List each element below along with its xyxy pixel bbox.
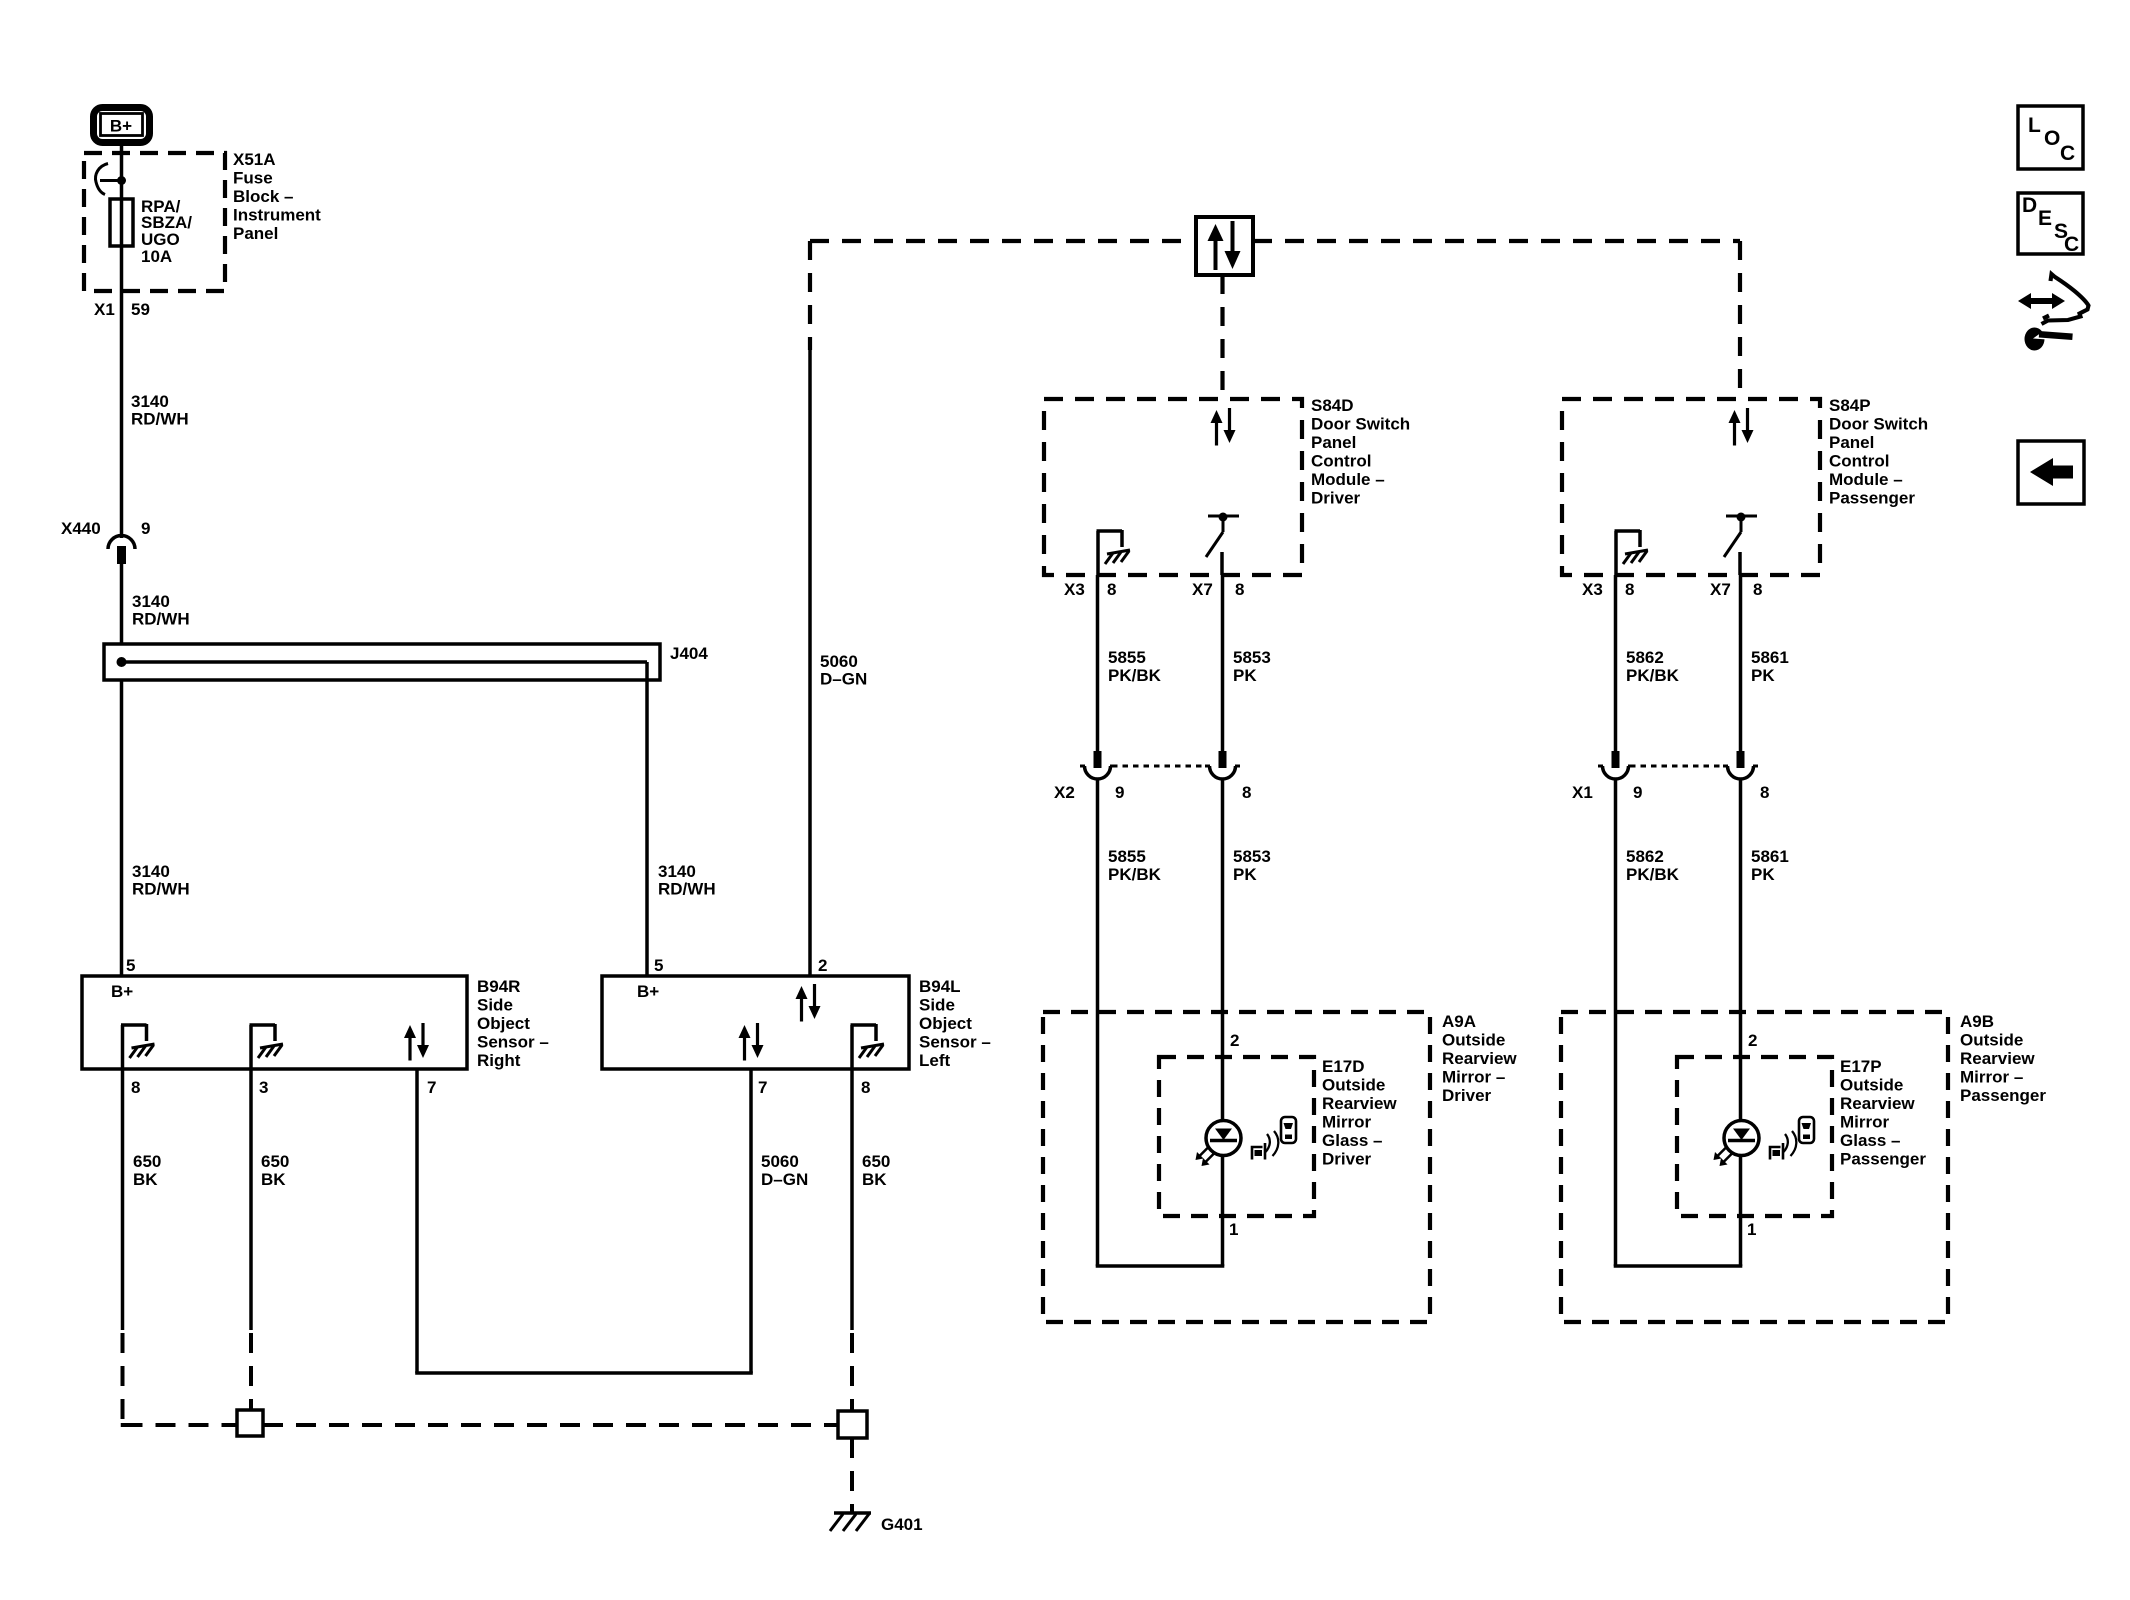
- wire 5862 from S84P X3-8: [1614, 575, 1618, 751]
- svg-text:5855: 5855: [1108, 648, 1146, 667]
- svg-text:1: 1: [1747, 1220, 1756, 1239]
- svg-text:X1: X1: [94, 300, 115, 319]
- S84P serial data arrows: [1729, 410, 1741, 423]
- svg-text:BK: BK: [133, 1170, 158, 1189]
- wrench icon: [2025, 328, 2045, 351]
- svg-text:C: C: [2064, 233, 2079, 256]
- LED emission arrows: [1717, 1147, 1728, 1158]
- svg-text:650: 650: [862, 1152, 890, 1171]
- svg-text:2: 2: [1230, 1031, 1239, 1050]
- wire 5853 from S84D X7-8: [1221, 575, 1225, 751]
- svg-text:5060: 5060: [761, 1152, 799, 1171]
- button back arrow: [2018, 441, 2084, 504]
- svg-text:Door Switch: Door Switch: [1829, 415, 1928, 434]
- svg-text:5855: 5855: [1108, 847, 1146, 866]
- vehicle data exchange icon: [2026, 298, 2057, 304]
- wire 3140 RD/WH J404 to B94L pin 5: [645, 662, 649, 976]
- ground bus dashed to G401: [121, 1423, 125, 1427]
- wire 5060 D-GN loop B94R pin 7 to B94L pin 7: [415, 1069, 419, 1373]
- svg-text:L: L: [2028, 114, 2041, 137]
- mirror glass E17D box: [1159, 1057, 1314, 1216]
- svg-text:D–GN: D–GN: [761, 1170, 808, 1189]
- wire 650 BK from B94R pin 8: [121, 1069, 125, 1330]
- svg-text:650: 650: [261, 1152, 289, 1171]
- svg-text:B94L: B94L: [919, 977, 961, 996]
- mirror module A9A box: [1043, 1012, 1430, 1322]
- svg-text:PK/BK: PK/BK: [1626, 865, 1680, 884]
- wire LED to pin 1: [1739, 1156, 1743, 1266]
- dashed wire direction box to S84D: [1220, 275, 1224, 399]
- svg-text:650: 650: [133, 1152, 161, 1171]
- svg-text:5862: 5862: [1626, 648, 1664, 667]
- svg-text:10A: 10A: [141, 247, 172, 266]
- mirror module A9B box: [1561, 1012, 1948, 1322]
- wire 3140 RD/WH to X440: [120, 291, 124, 538]
- svg-text:Control: Control: [1311, 452, 1371, 471]
- svg-text:PK/BK: PK/BK: [1108, 865, 1162, 884]
- svg-text:8: 8: [1625, 580, 1634, 599]
- svg-text:Object: Object: [919, 1014, 972, 1033]
- svg-text:B+: B+: [111, 982, 133, 1001]
- svg-text:PK/BK: PK/BK: [1626, 666, 1680, 685]
- module S84P Door Switch Panel Control Module box: [1562, 399, 1820, 575]
- svg-text:E17P: E17P: [1840, 1057, 1882, 1076]
- svg-text:E17D: E17D: [1322, 1057, 1365, 1076]
- svg-text:5853: 5853: [1233, 648, 1271, 667]
- svg-text:D: D: [2022, 194, 2037, 217]
- serial data direction box: [1196, 217, 1253, 275]
- inline connector X1 pin 8: [1737, 751, 1745, 768]
- LED indicator in E17P: [1724, 1121, 1759, 1156]
- svg-text:RD/WH: RD/WH: [132, 610, 190, 629]
- wire LED to pin 1: [1221, 1156, 1225, 1266]
- svg-text:Driver: Driver: [1322, 1150, 1372, 1169]
- S84D serial data arrows: [1211, 410, 1223, 423]
- svg-text:Passenger: Passenger: [1960, 1086, 2046, 1105]
- svg-text:PK/BK: PK/BK: [1108, 666, 1162, 685]
- wire B+ to fuse: [120, 146, 124, 200]
- splice pack J404: [104, 644, 660, 680]
- wire fuse to X1 pin 59: [120, 246, 124, 291]
- wire 3140 RD/WH J404 to B94R pin 5: [120, 680, 124, 976]
- svg-text:Module –: Module –: [1829, 470, 1903, 489]
- mirror glass E17P box: [1677, 1057, 1832, 1216]
- svg-text:Passenger: Passenger: [1840, 1150, 1926, 1169]
- svg-text:Driver: Driver: [1442, 1086, 1492, 1105]
- svg-text:J404: J404: [670, 644, 708, 663]
- svg-text:5: 5: [654, 956, 663, 975]
- svg-text:Door Switch: Door Switch: [1311, 415, 1410, 434]
- splice square on ground bus (G401 junction): [838, 1411, 867, 1438]
- svg-text:Mirror –: Mirror –: [1442, 1068, 1505, 1087]
- splice square on ground bus (pin 3 junction): [237, 1410, 263, 1436]
- svg-text:Rearview: Rearview: [1322, 1094, 1397, 1113]
- svg-text:9: 9: [141, 519, 150, 538]
- svg-text:8: 8: [861, 1078, 870, 1097]
- wire 5853 to mirror glass: [1221, 779, 1225, 1121]
- svg-text:Object: Object: [477, 1014, 530, 1033]
- inline connector X2 pin 8: [1219, 751, 1227, 768]
- wire 5855 from S84D X3-8: [1096, 575, 1100, 751]
- LED indicator in E17D: [1206, 1121, 1241, 1156]
- svg-text:7: 7: [758, 1078, 767, 1097]
- LED emission arrows: [1199, 1147, 1210, 1158]
- svg-text:3140: 3140: [131, 392, 169, 411]
- svg-text:PK: PK: [1233, 666, 1257, 685]
- svg-text:5060: 5060: [820, 652, 858, 671]
- wire 5060 D-GN from B94L pin 2 up to data bus: [808, 349, 812, 976]
- B94L internal ground pin 8: [850, 1025, 854, 1069]
- svg-text:3140: 3140: [658, 862, 696, 881]
- svg-text:8: 8: [1235, 580, 1244, 599]
- svg-text:Side: Side: [919, 996, 955, 1015]
- mirror internal return wire: [1096, 1264, 1225, 1268]
- wire 650 BK from B94R pin 3: [249, 1069, 253, 1330]
- svg-text:Rearview: Rearview: [1840, 1094, 1915, 1113]
- svg-text:B+: B+: [637, 982, 659, 1001]
- svg-text:S84P: S84P: [1829, 396, 1871, 415]
- svg-text:5: 5: [126, 956, 135, 975]
- svg-text:C: C: [2060, 142, 2075, 165]
- svg-text:Rearview: Rearview: [1442, 1049, 1517, 1068]
- svg-text:Glass –: Glass –: [1322, 1131, 1383, 1150]
- svg-text:X2: X2: [1054, 783, 1075, 802]
- B94R internal ground pin 8: [121, 1025, 125, 1069]
- svg-text:Module –: Module –: [1311, 470, 1385, 489]
- svg-text:Instrument: Instrument: [233, 206, 321, 225]
- svg-text:X440: X440: [61, 519, 101, 538]
- wire 5855 to mirror: [1096, 779, 1100, 1266]
- svg-text:5861: 5861: [1751, 648, 1789, 667]
- svg-text:A9A: A9A: [1442, 1012, 1476, 1031]
- svg-text:A9B: A9B: [1960, 1012, 1994, 1031]
- S84D internal ground (pin X3 8): [1096, 531, 1100, 575]
- dashed wire square to G401: [850, 1438, 854, 1513]
- B94R serial data arrows pin 7: [404, 1025, 416, 1038]
- svg-text:Sensor –: Sensor –: [919, 1033, 991, 1052]
- svg-text:9: 9: [1115, 783, 1124, 802]
- blind zone alert icon: [1770, 1147, 1781, 1160]
- svg-text:Outside: Outside: [1442, 1031, 1505, 1050]
- svg-text:8: 8: [1242, 783, 1251, 802]
- svg-text:3140: 3140: [132, 592, 170, 611]
- B94R internal ground pin 3: [249, 1025, 253, 1069]
- svg-text:7: 7: [427, 1078, 436, 1097]
- svg-text:X3: X3: [1064, 580, 1085, 599]
- inline connector X1 pin 9: [1612, 751, 1620, 768]
- svg-text:5862: 5862: [1626, 847, 1664, 866]
- svg-text:D–GN: D–GN: [820, 670, 867, 689]
- svg-text:Mirror: Mirror: [1322, 1113, 1372, 1132]
- svg-text:X3: X3: [1582, 580, 1603, 599]
- svg-text:2: 2: [1748, 1031, 1757, 1050]
- svg-text:Fuse: Fuse: [233, 169, 273, 188]
- svg-text:Panel: Panel: [233, 224, 278, 243]
- svg-text:S84D: S84D: [1311, 396, 1354, 415]
- svg-text:Mirror: Mirror: [1840, 1113, 1890, 1132]
- connector X1 face dotted line: [1630, 765, 1726, 768]
- svg-text:8: 8: [1760, 783, 1769, 802]
- svg-text:8: 8: [1753, 580, 1762, 599]
- module B94R Side Object Sensor - Right: [82, 976, 467, 1069]
- svg-text:Driver: Driver: [1311, 489, 1361, 508]
- svg-text:Rearview: Rearview: [1960, 1049, 2035, 1068]
- ground G401: [834, 1511, 871, 1515]
- svg-text:RD/WH: RD/WH: [658, 880, 716, 899]
- button LOC: [2018, 106, 2083, 169]
- svg-text:O: O: [2044, 127, 2060, 150]
- svg-text:E: E: [2038, 207, 2052, 230]
- inline connector X2 pin 9: [1094, 751, 1102, 768]
- connector X2 face dotted line: [1112, 765, 1208, 768]
- power symbol B+: [94, 108, 150, 143]
- svg-text:Side: Side: [477, 996, 513, 1015]
- svg-text:Control: Control: [1829, 452, 1889, 471]
- dashed data bus to door switch modules: [810, 239, 1196, 243]
- svg-text:Right: Right: [477, 1051, 521, 1070]
- svg-text:5853: 5853: [1233, 847, 1271, 866]
- svg-text:8: 8: [1107, 580, 1116, 599]
- svg-text:B+: B+: [110, 117, 132, 136]
- svg-text:Outside: Outside: [1322, 1076, 1385, 1095]
- svg-text:X7: X7: [1192, 580, 1213, 599]
- svg-text:8: 8: [131, 1078, 140, 1097]
- svg-text:Glass –: Glass –: [1840, 1131, 1901, 1150]
- fuse block X51A dashed box: [84, 153, 225, 291]
- svg-text:1: 1: [1229, 1220, 1238, 1239]
- svg-text:Outside: Outside: [1960, 1031, 2023, 1050]
- svg-text:Sensor –: Sensor –: [477, 1033, 549, 1052]
- svg-text:Left: Left: [919, 1051, 951, 1070]
- S84P internal ground (pin X3 8): [1614, 531, 1618, 575]
- svg-text:59: 59: [131, 300, 150, 319]
- svg-text:9: 9: [1633, 783, 1642, 802]
- svg-text:X7: X7: [1710, 580, 1731, 599]
- svg-text:X1: X1: [1572, 783, 1593, 802]
- B94L serial data arrows pin 2: [796, 986, 808, 999]
- wire 650 BK from B94L pin 8 to ground: [850, 1069, 854, 1330]
- svg-text:3140: 3140: [132, 862, 170, 881]
- S84P switch (pin X7 8): [1726, 515, 1757, 518]
- svg-text:2: 2: [818, 956, 827, 975]
- B94L serial data arrows pin 7: [739, 1025, 751, 1038]
- wire 5861 from S84P X7-8: [1739, 575, 1743, 751]
- svg-text:PK: PK: [1751, 666, 1775, 685]
- svg-text:BK: BK: [261, 1170, 286, 1189]
- module B94L Side Object Sensor - Left: [602, 976, 909, 1069]
- svg-text:Panel: Panel: [1829, 433, 1874, 452]
- svg-text:Panel: Panel: [1311, 433, 1356, 452]
- module S84D Door Switch Panel Control Module box: [1044, 399, 1302, 575]
- button DESC: [2018, 193, 2083, 254]
- blind zone alert icon: [1252, 1147, 1263, 1160]
- svg-text:Outside: Outside: [1840, 1076, 1903, 1095]
- svg-text:X51A: X51A: [233, 150, 276, 169]
- svg-text:B94R: B94R: [477, 977, 520, 996]
- wire 5862 to mirror: [1614, 779, 1618, 1266]
- fuse RPA/SBZA/UGO 10A: [110, 199, 133, 246]
- svg-text:RD/WH: RD/WH: [132, 880, 190, 899]
- wire 5861 to mirror glass: [1739, 779, 1743, 1121]
- svg-text:BK: BK: [862, 1170, 887, 1189]
- wire 3140 RD/WH X440 to J404: [120, 563, 124, 644]
- mirror internal return wire: [1614, 1264, 1743, 1268]
- svg-text:3: 3: [259, 1078, 268, 1097]
- svg-text:5861: 5861: [1751, 847, 1789, 866]
- svg-text:Block –: Block –: [233, 187, 293, 206]
- svg-text:RD/WH: RD/WH: [131, 410, 189, 429]
- S84D switch (pin X7 8): [1208, 515, 1239, 518]
- svg-text:PK: PK: [1233, 865, 1257, 884]
- svg-text:Passenger: Passenger: [1829, 489, 1915, 508]
- fuse element hook: [96, 164, 109, 195]
- svg-text:PK: PK: [1751, 865, 1775, 884]
- svg-text:Mirror –: Mirror –: [1960, 1068, 2023, 1087]
- svg-text:G401: G401: [881, 1515, 923, 1534]
